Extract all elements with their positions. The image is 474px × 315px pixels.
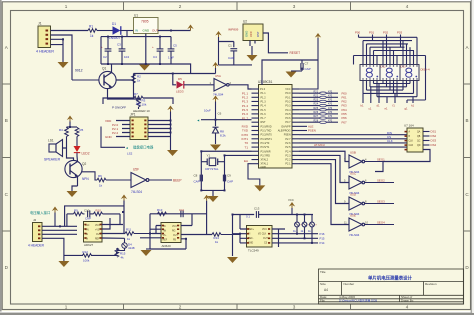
- LED2 red led: [74, 146, 90, 157]
- svg-text:LS2: LS2: [127, 152, 133, 156]
- svg-text:470: 470: [328, 111, 333, 114]
- net label ALE: [308, 125, 316, 133]
- svg-text:FB: FB: [173, 240, 176, 242]
- inverter U5C: [344, 172, 367, 195]
- svg-text:Title: Title: [320, 270, 326, 274]
- svg-text:DS3: DS3: [431, 139, 437, 143]
- svg-text:1k: 1k: [137, 79, 141, 83]
- label keypad chinese: [133, 145, 154, 150]
- svg-text:U5C: U5C: [350, 172, 357, 176]
- svg-text:P1.5: P1.5: [261, 109, 267, 112]
- svg-text:U7 164: U7 164: [404, 124, 414, 128]
- wires opto outputs: [102, 218, 125, 238]
- svg-text:C5: C5: [173, 44, 177, 48]
- svg-text:P0.3: P0.3: [285, 105, 291, 108]
- svg-text:R10: R10: [96, 208, 102, 212]
- inverter U5B: [344, 151, 367, 174]
- title block frame: [319, 269, 464, 304]
- svg-text:T1: T1: [244, 145, 248, 149]
- capacitor C11: [179, 208, 184, 217]
- svg-text:C9: C9: [227, 174, 231, 178]
- svg-text:R5: R5: [80, 128, 84, 132]
- svg-text:JP1: JP1: [130, 113, 136, 117]
- svg-text:AT-MCU: AT-MCU: [314, 143, 325, 147]
- wire Q2 base to R6: [82, 172, 97, 180]
- mcu U3 right pin stubs: [292, 89, 299, 164]
- VCC arrow audio branch: [67, 116, 73, 128]
- wire U5B output: [365, 161, 394, 163]
- junction dots adc wires: [296, 233, 313, 244]
- svg-text:U5E: U5E: [350, 214, 356, 218]
- svg-text:QB: QB: [417, 136, 421, 138]
- VCC arrow reset branch: [212, 96, 218, 120]
- svg-text:R21: R21: [314, 90, 319, 93]
- svg-text:◄: ◄: [125, 146, 128, 150]
- svg-text:REF: REF: [95, 239, 100, 241]
- svg-text:P15: P15: [320, 237, 325, 241]
- resistor R4: [59, 127, 68, 141]
- wire keypad top rail: [103, 98, 173, 104]
- svg-text:3: 3: [293, 305, 296, 310]
- svg-text:10k: 10k: [136, 102, 141, 106]
- wire VCC to reset chip: [219, 42, 234, 48]
- diode D4 circle: [117, 238, 135, 250]
- wire Q2 collector from LED: [76, 156, 79, 162]
- svg-text:TLC549: TLC549: [248, 249, 259, 253]
- svg-text:DISA-4: DISA-4: [421, 68, 430, 72]
- transistor Q1: [99, 67, 116, 89]
- svg-text:R22: R22: [314, 94, 319, 97]
- svg-text:GND: GND: [143, 29, 151, 33]
- wire U2 bottom rail: [219, 64, 253, 66]
- ground below J1: [58, 62, 69, 68]
- svg-text:QC: QC: [417, 141, 421, 143]
- svg-text:+: +: [152, 45, 154, 49]
- svg-text:R4: R4: [59, 128, 63, 132]
- capacitor C12 adc: [246, 207, 260, 219]
- ground under Q2: [67, 191, 78, 197]
- svg-text:P3.4/T0: P3.4/T0: [261, 142, 270, 145]
- svg-text:VCC: VCC: [249, 31, 253, 37]
- mcu U3 left pin stubs: [252, 89, 260, 164]
- svg-text:R7: R7: [134, 92, 138, 96]
- svg-text:A4: A4: [324, 288, 328, 292]
- svg-text:GND: GND: [261, 166, 267, 169]
- label P-OUT: [112, 106, 126, 110]
- svg-text:RST: RST: [256, 31, 260, 37]
- svg-text:P1.4: P1.4: [261, 105, 267, 108]
- svg-text:U5A: U5A: [215, 74, 221, 78]
- svg-text:U5F: U5F: [133, 168, 139, 172]
- ground reset branch: [210, 145, 221, 151]
- wires display bottom mesh verticals: [363, 81, 417, 97]
- svg-text:CLK: CLK: [387, 139, 393, 143]
- wire J1 pin2 down: [51, 35, 73, 80]
- svg-text:R11: R11: [126, 228, 131, 232]
- wire input block top rail: [65, 201, 124, 234]
- net labels display bus top: [355, 31, 403, 35]
- svg-text:1: 1: [65, 4, 68, 9]
- VCC arrow J2 pin1: [52, 207, 58, 227]
- svg-text:GND: GND: [105, 135, 113, 139]
- svg-text:RG: RG: [172, 231, 176, 233]
- svg-text:P3.1/TXD: P3.1/TXD: [261, 130, 272, 133]
- VCC arrow mcu: [299, 33, 321, 89]
- svg-text:CAP: CAP: [85, 217, 91, 221]
- optocoupler U4: [84, 222, 103, 247]
- svg-text:P1.7: P1.7: [261, 117, 267, 120]
- svg-text:C10: C10: [84, 208, 90, 212]
- svg-text:P16: P16: [320, 232, 325, 236]
- svg-text:1: 1: [65, 305, 68, 310]
- wire U5E output: [365, 224, 394, 226]
- wires adc right pins: [272, 229, 318, 247]
- inverter U5A power indicator: [210, 74, 232, 96]
- svg-text:CAP: CAP: [227, 180, 233, 184]
- svg-text:R13: R13: [157, 208, 163, 212]
- ground adc: [227, 257, 238, 263]
- svg-text:P1.6: P1.6: [261, 113, 267, 116]
- mcu U3 89C51 body: [258, 80, 292, 168]
- ground block A: [58, 261, 69, 267]
- svg-text:OUT: OUT: [173, 235, 178, 237]
- resistor R14: [212, 233, 240, 244]
- wire Q1 bottom branch: [108, 89, 139, 99]
- net labels JP1 left: [105, 119, 119, 139]
- resistor R9 top: [67, 208, 85, 215]
- svg-text:+VS: +VS: [95, 230, 100, 232]
- adc U8 TLC549: [247, 226, 273, 253]
- diode D1: [109, 22, 121, 40]
- net label SEG1: [377, 157, 385, 161]
- svg-text:P1.0: P1.0: [260, 88, 266, 91]
- wires U7 right pins: [423, 132, 430, 146]
- resistor R6: [97, 174, 106, 188]
- svg-text:◄: ◄: [197, 119, 200, 123]
- svg-text:C2: C2: [103, 55, 107, 59]
- svg-text:Size: Size: [320, 282, 326, 286]
- wire Q1 base: [72, 79, 99, 81]
- net labels adc outputs: [320, 232, 325, 245]
- wire staircase gate3: [299, 160, 349, 204]
- svg-text:470: 470: [328, 119, 333, 122]
- svg-text:P2.1: P2.1: [285, 163, 291, 166]
- wire U2 reset output: [263, 33, 288, 53]
- svg-text:B: B: [465, 118, 468, 123]
- wire R6 to U5A input: [106, 179, 131, 181]
- net labels P0 bus: [314, 90, 333, 122]
- svg-text:+: +: [101, 45, 103, 49]
- wires display label stubs: [359, 35, 401, 48]
- wire Q1 emitter to R2: [116, 74, 134, 100]
- svg-text:DS2: DS2: [431, 134, 437, 138]
- svg-text:电压输入接口: 电压输入接口: [30, 210, 50, 215]
- capacitor C4: [152, 37, 163, 64]
- svg-text:File:: File:: [320, 298, 326, 302]
- svg-text:LED2: LED2: [82, 152, 90, 156]
- svg-text:VCC: VCC: [285, 88, 290, 91]
- mcu U3 left net labels: [241, 91, 248, 163]
- wires U6 left inputs: [140, 226, 161, 238]
- svg-text:B: B: [5, 118, 8, 123]
- wires P0 bus rows: [299, 93, 338, 122]
- capacitor C10 top: [84, 208, 94, 220]
- svg-text:P1.1: P1.1: [261, 92, 267, 95]
- svg-text:C8: C8: [194, 174, 198, 178]
- speaker LS1: [44, 139, 63, 162]
- svg-text:R6: R6: [98, 174, 102, 178]
- potentiometer RP2: [301, 215, 310, 239]
- resistor network RP1 ovals: [320, 92, 327, 123]
- svg-text:Number: Number: [344, 282, 355, 286]
- wire opto loop sides: [67, 214, 120, 226]
- wire reset node to RST pin: [201, 120, 252, 126]
- svg-text:2: 2: [179, 305, 182, 310]
- svg-text:D5: D5: [178, 77, 182, 81]
- wire gnd rail extension to loop: [134, 64, 216, 74]
- svg-text:EA: EA: [244, 159, 248, 163]
- svg-text:C1: C1: [228, 44, 232, 48]
- wire J1 pin1 to R1: [51, 30, 89, 32]
- svg-text:P3.3/INT1: P3.3/INT1: [261, 138, 273, 141]
- svg-text:470: 470: [328, 90, 333, 93]
- svg-text:ALE/PROG: ALE/PROG: [278, 130, 291, 133]
- svg-text:J1: J1: [38, 22, 42, 26]
- wires mcu to U7: [299, 135, 407, 147]
- ground crystal: [208, 196, 219, 202]
- wire R1 to D1: [97, 30, 113, 32]
- svg-text:GND: GND: [245, 31, 249, 37]
- svg-text:1k: 1k: [90, 34, 94, 38]
- svg-text:U5D: U5D: [350, 193, 357, 197]
- wire speaker to node: [63, 141, 74, 161]
- svg-text:VCC: VCC: [262, 229, 267, 231]
- svg-text:REF: REF: [163, 240, 168, 242]
- wire crystal left leg: [201, 151, 251, 190]
- svg-text:CAP: CAP: [305, 67, 311, 71]
- wire Q1 collector up: [111, 64, 113, 73]
- diode D2 reset: [213, 127, 227, 144]
- svg-text:Drawn By:: Drawn By:: [401, 298, 414, 302]
- svg-text:CAP: CAP: [194, 180, 200, 184]
- net label RESET: [290, 51, 301, 55]
- svg-text:AD620: AD620: [162, 244, 172, 248]
- potentiometer RP1: [293, 215, 302, 234]
- svg-text:P0.5: P0.5: [285, 113, 291, 116]
- serial driver U7: [404, 124, 423, 153]
- svg-text:470: 470: [328, 107, 333, 110]
- svg-text:SEG2: SEG2: [377, 178, 385, 182]
- connector J2 input header: [28, 218, 45, 247]
- amplifier U6: [161, 223, 181, 248]
- svg-text:HEADER 10: HEADER 10: [133, 109, 150, 113]
- wire U5D output: [365, 203, 394, 205]
- svg-text:SPEAKER: SPEAKER: [44, 158, 61, 162]
- svg-text:U2: U2: [243, 20, 247, 24]
- svg-text:d1: d1: [377, 104, 381, 108]
- svg-text:SEG4: SEG4: [377, 220, 385, 224]
- capacitor C9: [223, 174, 233, 184]
- svg-text:QA: QA: [417, 131, 421, 134]
- svg-text:h1: h1: [411, 104, 415, 108]
- svg-text:C4: C4: [153, 55, 157, 59]
- wire LED3 to U5A: [184, 84, 214, 86]
- svg-text:g1: g1: [405, 107, 409, 111]
- svg-text:J2: J2: [33, 218, 37, 222]
- wire J1 pins 3-4 to ground: [51, 39, 64, 62]
- svg-text:CRYSTAL: CRYSTAL: [205, 167, 219, 171]
- wire crystal right leg: [225, 155, 252, 190]
- wires U6 right outputs: [150, 226, 212, 250]
- wire crystal bottom rail: [201, 190, 224, 196]
- wire D1 to U1 regulator: [120, 31, 134, 37]
- svg-text:P1.3: P1.3: [261, 101, 267, 104]
- svg-text:VCC: VCC: [172, 226, 177, 228]
- svg-text:470: 470: [328, 99, 333, 102]
- svg-text:R12: R12: [83, 250, 89, 254]
- wires display top mesh verticals: [354, 37, 426, 100]
- svg-text:P0.6: P0.6: [285, 117, 291, 120]
- svg-text:XTAL2: XTAL2: [261, 159, 269, 162]
- svg-text:P2.7: P2.7: [285, 138, 291, 141]
- wires adc left pins: [233, 229, 247, 243]
- svg-text:10k: 10k: [142, 103, 147, 107]
- svg-text:P3.7/RD: P3.7/RD: [261, 154, 271, 157]
- label input section chinese: [30, 210, 50, 215]
- inverter U5E: [344, 214, 368, 237]
- svg-text:R27: R27: [314, 115, 319, 118]
- svg-text:NPN: NPN: [82, 177, 89, 181]
- net labels U7 right: [431, 130, 437, 148]
- mcu decoupling wire top: [262, 60, 318, 85]
- svg-text:U3 89C51: U3 89C51: [258, 80, 273, 84]
- power VCC arrow: [187, 25, 193, 31]
- svg-text:7805: 7805: [141, 20, 149, 24]
- svg-text:9012: 9012: [75, 69, 83, 73]
- svg-text:P2.2: P2.2: [285, 159, 291, 162]
- svg-text:P3.6/WR: P3.6/WR: [261, 150, 271, 153]
- svg-text:P01: P01: [369, 31, 375, 35]
- net label BEEP: [173, 179, 182, 183]
- svg-text:R26: R26: [314, 111, 319, 114]
- ground above mcu: [286, 72, 297, 78]
- svg-text:b1: b1: [361, 104, 365, 108]
- svg-text:PSEN: PSEN: [308, 129, 316, 133]
- svg-text:P3.0/RXD: P3.0/RXD: [261, 125, 272, 128]
- VCC arrow block B: [203, 195, 209, 201]
- wire U2 bottom pins: [250, 41, 255, 56]
- svg-text:DS4: DS4: [431, 143, 437, 147]
- reset supervisor U2: [228, 20, 263, 41]
- svg-text:4 HEADER: 4 HEADER: [28, 243, 45, 247]
- label LED teal mark: [125, 146, 132, 156]
- wires display top mesh horizontals: [354, 37, 426, 55]
- svg-text:c1: c1: [369, 107, 372, 111]
- wire LED3 branch: [173, 74, 176, 85]
- ground keypad pullup: [167, 150, 178, 156]
- wires JP1 right pins to pullup: [148, 120, 171, 150]
- svg-text:P2.3: P2.3: [285, 154, 291, 157]
- net labels U7 wires: [387, 131, 393, 143]
- svg-text:R1: R1: [89, 25, 93, 29]
- svg-text:P02: P02: [383, 31, 389, 35]
- ground block B: [141, 249, 152, 256]
- resistor R13: [157, 208, 167, 216]
- net arrow reset: [197, 119, 200, 123]
- svg-text:PSEN: PSEN: [284, 134, 291, 137]
- svg-text:Q2: Q2: [82, 162, 86, 166]
- wire audio top node: [67, 126, 78, 128]
- svg-text:P07: P07: [342, 120, 348, 124]
- svg-text:C13: C13: [254, 207, 260, 211]
- ground below mcu: [248, 164, 265, 192]
- svg-text:DS1: DS1: [431, 130, 437, 134]
- svg-text:OUT: OUT: [152, 29, 159, 33]
- wire U5A output: [149, 179, 172, 181]
- svg-text:P14: P14: [320, 241, 325, 245]
- svg-text:2: 2: [179, 4, 182, 9]
- svg-text:SEG1: SEG1: [377, 157, 385, 161]
- svg-text:I/O CLK: I/O CLK: [258, 234, 267, 236]
- svg-text:P2.5: P2.5: [285, 146, 291, 149]
- svg-text:P ON/OFF: P ON/OFF: [112, 106, 126, 110]
- resistor R12 bottom: [83, 250, 92, 263]
- LED3 power led: [176, 77, 184, 94]
- svg-text:R28: R28: [314, 119, 319, 122]
- wire U7 bottom loop: [375, 150, 430, 172]
- svg-text:C11: C11: [179, 208, 184, 212]
- resistor R10 top: [94, 208, 121, 215]
- svg-text:74LS04: 74LS04: [349, 233, 360, 237]
- svg-text:P0.4: P0.4: [285, 109, 291, 112]
- svg-text:CLR: CLR: [409, 145, 414, 147]
- svg-text:0.1: 0.1: [246, 215, 250, 219]
- resistor R2: [132, 74, 141, 83]
- svg-text:P0.2: P0.2: [285, 101, 291, 104]
- svg-text:R9: R9: [74, 208, 78, 212]
- svg-text:P3.5/T1: P3.5/T1: [261, 146, 270, 149]
- svg-text:R23: R23: [314, 99, 319, 102]
- net label ALE-MCU: [314, 143, 325, 147]
- resistor R7 on rail: [134, 92, 143, 106]
- crystal Y1: [201, 153, 224, 171]
- net labels display bottom: [361, 104, 415, 111]
- VCC arrow input block: [121, 195, 127, 201]
- svg-text:470: 470: [328, 115, 333, 118]
- svg-text:P0.0: P0.0: [285, 92, 291, 95]
- svg-text:P0.7: P0.7: [285, 121, 291, 124]
- net label DISA-4: [421, 68, 430, 72]
- svg-text:8.2k: 8.2k: [220, 134, 226, 138]
- capacitor C7 mcu: [291, 62, 311, 72]
- svg-text:P3.2/INT0: P3.2/INT0: [261, 134, 273, 137]
- svg-text:Revision: Revision: [425, 282, 437, 286]
- svg-text:10uF: 10uF: [204, 109, 211, 113]
- VCC arrow led pullup: [212, 62, 218, 74]
- wires JP1 left pins: [116, 121, 130, 137]
- ground under U2: [247, 55, 258, 61]
- inverter U5D: [344, 193, 367, 216]
- connector JP1 keypad header: [130, 109, 150, 140]
- wire staircase gate4: [299, 164, 349, 225]
- svg-text:P2.4: P2.4: [285, 150, 291, 153]
- svg-text:RST: RST: [261, 121, 266, 124]
- svg-text:LS1: LS1: [48, 139, 54, 143]
- wire Q2 emitter to ground: [72, 176, 78, 191]
- svg-text:QD: QD: [417, 145, 421, 147]
- wires display bottom label stubs: [363, 84, 413, 104]
- svg-text:P2.6: P2.6: [285, 142, 291, 145]
